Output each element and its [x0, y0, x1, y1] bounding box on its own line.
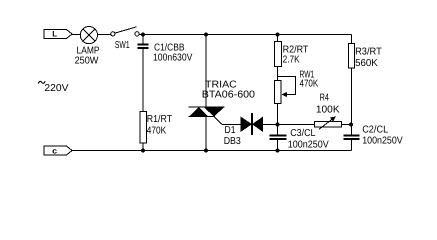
svg-text:2.7K: 2.7K: [283, 55, 300, 66]
capacitor C1: [138, 45, 149, 49]
wire: [142, 143, 144, 151]
svg-text:470K: 470K: [300, 79, 319, 90]
svg-text:560K: 560K: [355, 58, 378, 69]
junction: [349, 122, 353, 126]
svg-text:100n630V: 100n630V: [153, 52, 193, 63]
junction: [204, 32, 208, 36]
svg-text:D1: D1: [225, 125, 236, 136]
terminal c: [44, 146, 72, 155]
svg-text:470K: 470K: [147, 125, 167, 136]
svg-text:R1/RT: R1/RT: [147, 114, 172, 125]
label ~220V: [38, 81, 45, 83]
junction: [275, 148, 279, 152]
junction: [275, 32, 279, 36]
junction: [275, 122, 279, 126]
triac U1 BTA06-600: [189, 107, 225, 117]
switch SW1: [111, 27, 139, 36]
wire: [351, 139, 353, 151]
wire: [351, 35, 353, 44]
junction: [141, 32, 145, 36]
wire bottom rail: [72, 150, 352, 152]
wire top rail: [139, 34, 351, 36]
svg-text:C2/CL: C2/CL: [362, 124, 388, 135]
svg-text:DB3: DB3: [224, 136, 241, 147]
junction: [141, 148, 145, 152]
svg-text:C3/CL: C3/CL: [290, 128, 316, 139]
wire: [277, 139, 279, 151]
wire: [142, 35, 144, 45]
resistor R1: [140, 112, 147, 144]
svg-text:R3/RT: R3/RT: [355, 46, 382, 57]
wire: [351, 68, 353, 136]
wire: [205, 117, 207, 151]
svg-text:R4: R4: [320, 93, 330, 104]
wire: [205, 35, 207, 108]
wire gate: [214, 117, 241, 125]
svg-text:SW1: SW1: [115, 40, 130, 51]
wire: [98, 34, 111, 36]
svg-text:220V: 220V: [44, 83, 68, 94]
wire: [342, 124, 352, 126]
capacitor C2: [344, 136, 360, 140]
lamp LAMP 250W: [80, 26, 97, 43]
wire: [277, 67, 279, 81]
diac D1 DB3: [241, 113, 264, 135]
resistor R4: [315, 116, 342, 129]
junction: [204, 148, 208, 152]
wire: [277, 104, 279, 136]
svg-text:100n250V: 100n250V: [362, 135, 403, 146]
svg-text:250W: 250W: [75, 55, 99, 66]
svg-text:100K: 100K: [316, 104, 340, 115]
svg-text:c: c: [52, 146, 58, 155]
capacitor C3: [270, 136, 287, 140]
wire: [142, 48, 144, 112]
svg-text:100n250V: 100n250V: [288, 139, 329, 150]
resistor R2: [275, 42, 282, 67]
terminal L: [44, 30, 72, 39]
wire: [72, 34, 80, 36]
svg-text:BTA06-600: BTA06-600: [202, 90, 256, 101]
wire: [277, 35, 279, 43]
resistor R3: [349, 44, 355, 69]
svg-text:L: L: [52, 30, 57, 39]
potentiometer RW1: [275, 77, 296, 104]
wire: [263, 124, 315, 126]
